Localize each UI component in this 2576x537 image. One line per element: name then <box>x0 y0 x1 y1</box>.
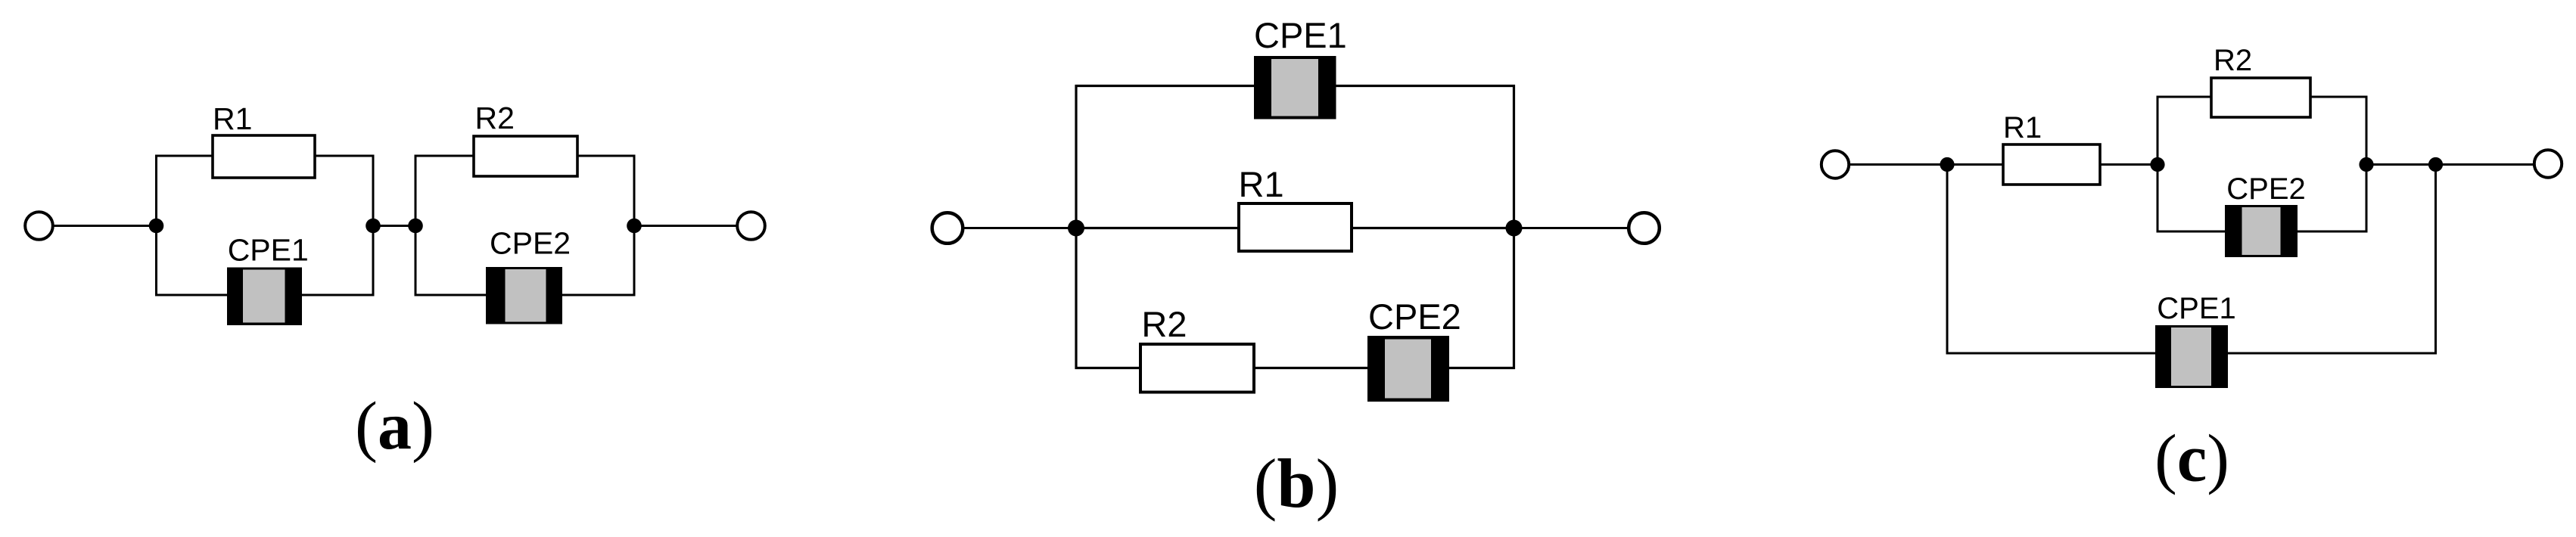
terminal T5 (left, circuit c) <box>1822 151 1849 178</box>
wire CPE2 to right rail <box>562 294 636 296</box>
capacitor CPE2 (constant phase element, circuit b) <box>1367 336 1449 402</box>
svg-text:R2: R2 <box>1141 304 1187 344</box>
wire right rail circuit b <box>1513 85 1515 369</box>
svg-text:CPE2: CPE2 <box>490 226 571 261</box>
node C1 <box>1940 157 1954 172</box>
capacitor CPE1 (constant phase element, circuit b) <box>1254 56 1336 120</box>
svg-text:(a): (a) <box>355 389 434 464</box>
wire lower branch left to CPE1 (circuit c) <box>1946 352 2158 355</box>
wire T3 to node B1 <box>963 227 1077 229</box>
wire top branch left to R1 <box>155 155 213 157</box>
terminal T6 (right, circuit c) <box>2534 150 2562 177</box>
wire bottom branch left to CPE2 <box>415 294 488 296</box>
wire R1 to node C2 <box>2100 163 2158 166</box>
wire middle branch left to R1 <box>1076 227 1240 229</box>
svg-text:R2: R2 <box>475 101 515 135</box>
wire left rail circuit b <box>1075 85 1077 369</box>
node C2 <box>2150 157 2164 172</box>
svg-text:R1: R1 <box>1239 164 1284 204</box>
wire bottom branch left to CPE1 <box>155 294 229 296</box>
resistor R2 <box>474 136 577 176</box>
resistor R1 <box>213 135 315 178</box>
wire right rail of R2/CPE2 block <box>633 155 636 296</box>
terminal T3 (left, circuit b) <box>932 213 963 244</box>
svg-text:(b): (b) <box>1254 445 1339 522</box>
svg-text:R2: R2 <box>2214 44 2252 77</box>
wire CPE2 to right rail <box>1449 367 1515 369</box>
wire CPE1 to right rail <box>1336 85 1516 87</box>
wire node A2 to node A3 <box>373 225 415 227</box>
wire right rail of R1/CPE1 block <box>372 155 375 296</box>
wire T5 to node C1 <box>1850 163 1948 166</box>
wire top branch left to CPE1 <box>1075 85 1256 87</box>
resistor R2 (circuit b) <box>1140 344 1254 393</box>
wire top branch left to R2 <box>415 155 475 157</box>
wire left rail of R2/CPE2 block <box>415 155 417 296</box>
wire node C3 to node C4 <box>2366 163 2436 166</box>
svg-text:CPE1: CPE1 <box>1254 15 1347 55</box>
wire node C1 to R1 <box>1947 163 2004 166</box>
svg-text:(c): (c) <box>2154 422 2229 496</box>
wire top branch left to R2 (circuit c) <box>2157 96 2213 98</box>
terminal T1 (left, circuit a) <box>25 212 53 240</box>
svg-text:R1: R1 <box>2003 111 2042 144</box>
wire CPE1 to right rail <box>302 294 374 296</box>
node A4 <box>627 219 642 234</box>
wire CPE2 to right rail (circuit c) <box>2297 231 2368 233</box>
wire CPE1 to lower-right rail (circuit c) <box>2228 352 2437 355</box>
node A1 <box>149 219 164 234</box>
wire lower-right rail circuit c <box>2434 165 2437 355</box>
capacitor CPE1 (constant phase element, circuit c) <box>2155 325 2228 388</box>
capacitor CPE1 (constant phase element, circuit a) <box>227 268 302 326</box>
wire node C4 to terminal T6 <box>2436 163 2535 166</box>
wire T1 to node A1 <box>53 225 157 227</box>
svg-text:CPE1: CPE1 <box>228 233 309 268</box>
wire R1 to right rail <box>315 155 374 157</box>
wire node B2 to terminal T4 <box>1514 227 1631 229</box>
node C4 <box>2428 157 2443 172</box>
node A3 <box>408 219 423 234</box>
wire R2 to CPE2 <box>1254 367 1369 369</box>
wire right rail of R2/CPE2 block (circuit c) <box>2366 96 2368 233</box>
svg-text:R1: R1 <box>213 101 252 136</box>
resistor R2 (circuit c) <box>2211 78 2310 117</box>
wire left rail of R2/CPE2 block (circuit c) <box>2157 96 2159 233</box>
wire node A4 to terminal T2 <box>634 225 737 227</box>
node C3 <box>2359 157 2373 172</box>
terminal T4 (right, circuit b) <box>1629 213 1660 244</box>
resistor R1 (circuit c) <box>2003 144 2100 185</box>
wire bottom branch left to R2 <box>1075 367 1142 369</box>
svg-text:CPE1: CPE1 <box>2157 292 2236 325</box>
wire left rail of R1/CPE1 block <box>155 155 157 296</box>
node B2 <box>1506 220 1523 237</box>
wire R1 to node B2 <box>1352 227 1514 229</box>
capacitor CPE2 (constant phase element, circuit c) <box>2225 205 2298 257</box>
wire R2 to right rail (circuit c) <box>2310 96 2368 98</box>
resistor R1 (circuit b) <box>1239 203 1352 251</box>
svg-text:CPE2: CPE2 <box>1368 296 1461 337</box>
wire R2 to right rail <box>577 155 636 157</box>
capacitor CPE2 (constant phase element, circuit a) <box>486 267 562 324</box>
node B1 <box>1068 220 1084 237</box>
terminal T2 (right, circuit a) <box>737 212 765 240</box>
svg-text:CPE2: CPE2 <box>2226 172 2306 206</box>
wire bottom branch left to CPE2 (circuit c) <box>2157 231 2227 233</box>
wire lower-left rail circuit c <box>1946 165 1949 355</box>
node A2 <box>366 219 381 234</box>
